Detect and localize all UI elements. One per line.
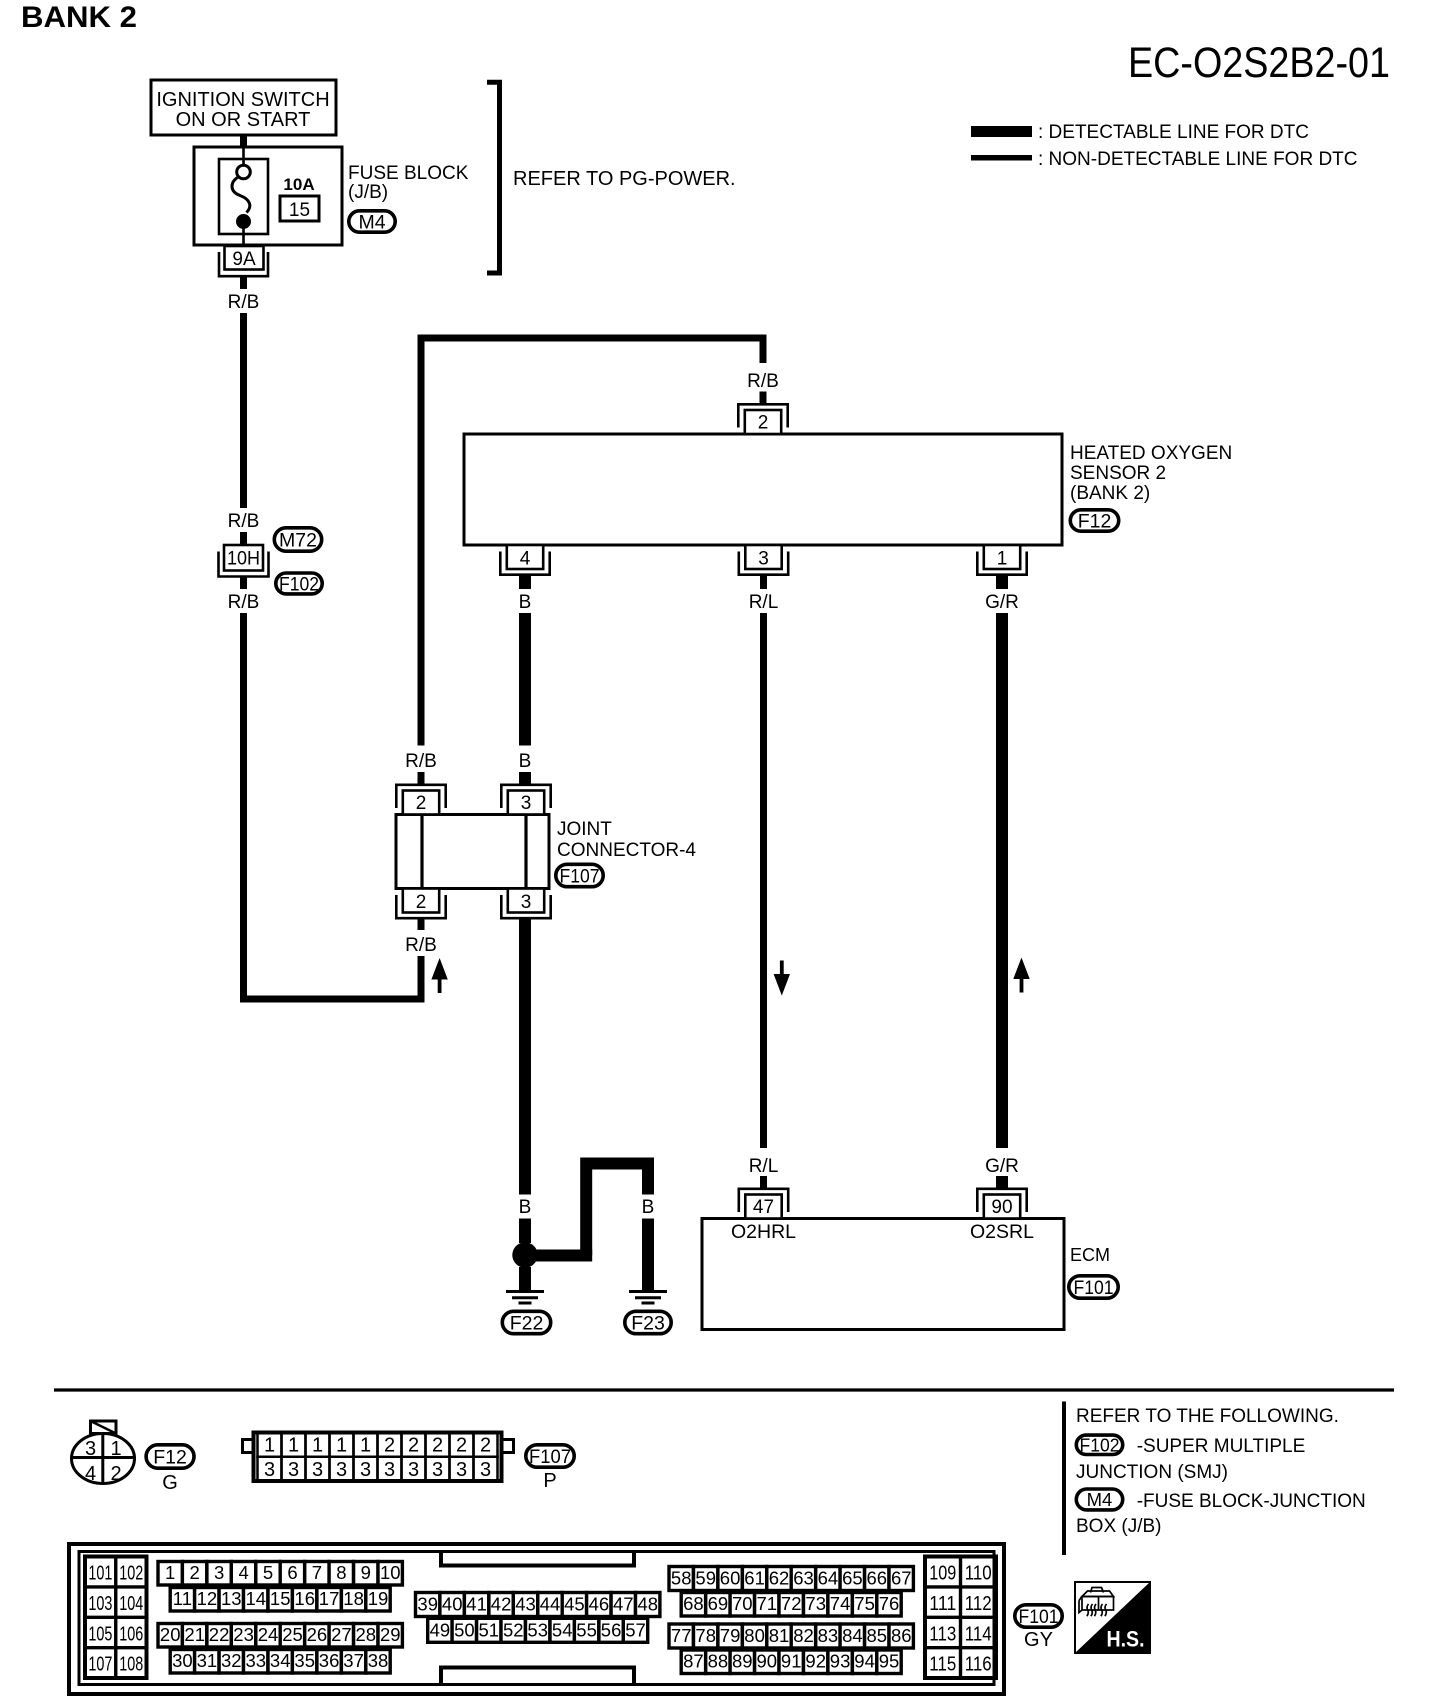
connector face F107 [254, 1433, 502, 1482]
sensor pin 2 [745, 410, 781, 434]
ECM pin 47 [745, 1195, 781, 1219]
ignition switch box [151, 80, 336, 135]
svg-text:G/R: G/R [985, 592, 1019, 613]
svg-text:65: 65 [842, 1568, 863, 1589]
svg-text:31: 31 [197, 1650, 218, 1671]
svg-text:F107: F107 [560, 866, 600, 887]
svg-text:38: 38 [368, 1650, 389, 1671]
wire stub above sensor pin 2 [760, 392, 767, 405]
svg-text:R/B: R/B [747, 371, 779, 392]
wire B down to F23 ground [642, 1219, 654, 1291]
svg-text:57: 57 [625, 1619, 646, 1640]
svg-text:62: 62 [769, 1568, 790, 1589]
svg-text:54: 54 [552, 1619, 573, 1640]
wire R/L sensor to ECM pin 47 [760, 613, 767, 1148]
svg-text:35: 35 [294, 1650, 315, 1671]
wire stub above joint pin 2 [418, 772, 425, 785]
svg-text:M4: M4 [1087, 1489, 1113, 1510]
svg-text:1: 1 [288, 1435, 299, 1457]
svg-text:26: 26 [307, 1624, 328, 1645]
svg-text:36: 36 [319, 1650, 340, 1671]
svg-text:2: 2 [408, 1435, 419, 1457]
svg-text:JUNCTION (SMJ): JUNCTION (SMJ) [1076, 1462, 1228, 1483]
svg-text:42: 42 [491, 1594, 512, 1615]
svg-text:113: 113 [929, 1623, 956, 1645]
svg-text:112: 112 [965, 1593, 992, 1615]
svg-text:: NON-DETECTABLE LINE FOR DTC: : NON-DETECTABLE LINE FOR DTC [1038, 149, 1358, 170]
svg-text:CONNECTOR-4: CONNECTOR-4 [557, 840, 696, 861]
H.S. logo [1075, 1582, 1150, 1653]
svg-text:F102: F102 [279, 574, 319, 595]
connector F12 oval (bottom) [146, 1445, 194, 1468]
svg-text:46: 46 [589, 1594, 610, 1615]
svg-text:3: 3 [521, 793, 532, 814]
svg-text:41: 41 [466, 1594, 487, 1615]
svg-text:12: 12 [197, 1588, 218, 1609]
svg-text:11: 11 [173, 1588, 192, 1609]
wire stub above joint pin 3 [519, 772, 531, 785]
svg-text:110: 110 [965, 1563, 992, 1585]
svg-text:43: 43 [515, 1594, 536, 1615]
svg-text:R/L: R/L [749, 1156, 779, 1177]
svg-text:JOINT: JOINT [557, 819, 612, 840]
svg-text:3: 3 [360, 1459, 371, 1481]
svg-text:3: 3 [480, 1459, 491, 1481]
svg-text:67: 67 [891, 1568, 912, 1589]
svg-text:55: 55 [576, 1619, 597, 1640]
ECM pins 1-10 [158, 1562, 182, 1586]
svg-text:89: 89 [732, 1651, 753, 1672]
svg-text:17: 17 [319, 1588, 340, 1609]
svg-text:4: 4 [238, 1562, 248, 1583]
svg-text:G/R: G/R [985, 1156, 1019, 1177]
connector 10H (SMJ) [224, 545, 263, 571]
svg-text:3: 3 [456, 1459, 467, 1481]
svg-text:1: 1 [312, 1435, 323, 1457]
ECM box F101 [702, 1219, 1064, 1330]
svg-text:79: 79 [720, 1625, 741, 1646]
svg-text:B: B [519, 592, 532, 613]
svg-text:103: 103 [88, 1593, 112, 1615]
svg-text:50: 50 [454, 1619, 475, 1640]
svg-text:33: 33 [246, 1650, 267, 1671]
svg-text:IGNITION SWITCH: IGNITION SWITCH [156, 89, 329, 111]
svg-text:70: 70 [732, 1593, 753, 1614]
svg-text:ECM: ECM [1070, 1245, 1110, 1265]
connector F102 oval (note) [1076, 1435, 1122, 1454]
svg-text:F12: F12 [153, 1447, 187, 1469]
svg-text:2: 2 [190, 1562, 200, 1583]
connector face F101 (ECM 116 pin) [69, 1544, 1004, 1694]
svg-text:1: 1 [997, 549, 1008, 570]
svg-text:88: 88 [708, 1651, 729, 1672]
svg-text:72: 72 [781, 1593, 802, 1614]
svg-text:20: 20 [160, 1624, 181, 1645]
svg-text:69: 69 [708, 1593, 729, 1614]
wire stub to F22 ground [519, 1267, 531, 1290]
wire stub below joint pin 2 [418, 918, 425, 930]
svg-text:F107: F107 [529, 1447, 571, 1468]
ECM pins 39-48 [416, 1593, 440, 1617]
svg-text:F101: F101 [1019, 1607, 1059, 1628]
svg-text:71: 71 [757, 1593, 778, 1614]
ECM pins 101-108 [85, 1557, 147, 1679]
joint pin 3 bottom [508, 889, 544, 913]
connector F101 oval (bottom) [1015, 1605, 1062, 1627]
connector M72 oval [274, 528, 321, 551]
wire B branch to F23 ground [525, 1250, 592, 1262]
svg-text:REFER TO PG-POWER.: REFER TO PG-POWER. [513, 168, 736, 190]
wire R/B down-left and corner to joint connector [240, 613, 247, 1003]
svg-text:F12: F12 [1078, 511, 1112, 533]
svg-text:68: 68 [683, 1593, 704, 1614]
svg-text:3: 3 [288, 1459, 299, 1481]
svg-text:3: 3 [432, 1459, 443, 1481]
svg-text:O2SRL: O2SRL [970, 1221, 1034, 1243]
fuse inner box [219, 159, 268, 234]
svg-text:114: 114 [965, 1623, 992, 1645]
wire R/B horizontal top run [418, 335, 767, 342]
legend thick detectable line sample [971, 126, 1032, 137]
svg-text:102: 102 [119, 1563, 143, 1585]
svg-text:P: P [543, 1470, 556, 1492]
svg-text:93: 93 [830, 1651, 851, 1672]
svg-text:49: 49 [430, 1619, 451, 1640]
svg-text:30: 30 [172, 1650, 193, 1671]
wire stub below 9A [240, 278, 247, 290]
svg-text:59: 59 [695, 1568, 716, 1589]
fuse block box M4 [194, 147, 342, 245]
svg-text:74: 74 [830, 1593, 851, 1614]
separator line [54, 1388, 1394, 1391]
svg-text:29: 29 [380, 1624, 401, 1645]
svg-text:53: 53 [527, 1619, 548, 1640]
svg-text:24: 24 [258, 1624, 279, 1645]
svg-text:5: 5 [263, 1562, 273, 1583]
svg-text:3: 3 [312, 1459, 323, 1481]
svg-text:23: 23 [233, 1624, 254, 1645]
svg-text:FUSE BLOCK: FUSE BLOCK [348, 163, 469, 184]
svg-text:10H: 10H [227, 549, 260, 570]
svg-text:19: 19 [368, 1588, 389, 1609]
svg-text:3: 3 [214, 1562, 224, 1583]
svg-text:73: 73 [805, 1593, 826, 1614]
svg-text:M4: M4 [358, 212, 385, 234]
svg-text:37: 37 [343, 1650, 364, 1671]
svg-text:39: 39 [417, 1594, 438, 1615]
svg-text:B: B [642, 1197, 655, 1218]
svg-text:1: 1 [165, 1562, 175, 1583]
svg-text:104: 104 [119, 1593, 143, 1615]
svg-text:25: 25 [282, 1624, 303, 1645]
ECM pins 30-38 [170, 1650, 194, 1674]
svg-text:(BANK 2): (BANK 2) [1070, 483, 1150, 504]
svg-text:R/B: R/B [405, 935, 437, 956]
svg-text:21: 21 [184, 1624, 205, 1645]
wire stub above 10H [240, 532, 247, 545]
svg-text:106: 106 [119, 1623, 143, 1645]
svg-text:-FUSE BLOCK-JUNCTION: -FUSE BLOCK-JUNCTION [1137, 1491, 1366, 1512]
svg-text:101: 101 [88, 1563, 112, 1585]
joint pin 3 top [508, 791, 544, 815]
svg-text:REFER TO THE FOLLOWING.: REFER TO THE FOLLOWING. [1076, 1406, 1339, 1427]
svg-text:15: 15 [270, 1588, 291, 1609]
svg-text:4: 4 [520, 549, 531, 570]
svg-text:9: 9 [361, 1562, 371, 1583]
ground F22 [506, 1290, 544, 1293]
svg-text:18: 18 [343, 1588, 364, 1609]
wire ignition to fuse block [240, 135, 247, 147]
joint pin 2 top [403, 791, 439, 815]
sensor pin 1 [984, 545, 1020, 569]
svg-text:47: 47 [753, 1197, 774, 1218]
svg-text:4: 4 [85, 1463, 96, 1485]
svg-text:87: 87 [683, 1651, 704, 1672]
svg-text:3: 3 [85, 1438, 96, 1460]
connector F101 oval [1069, 1276, 1118, 1298]
svg-text:7: 7 [312, 1562, 322, 1583]
svg-text:77: 77 [671, 1625, 692, 1646]
svg-text:F101: F101 [1074, 1278, 1114, 1299]
svg-text:109: 109 [929, 1563, 956, 1585]
svg-text:32: 32 [221, 1650, 242, 1671]
wire R/B from 9A to 10H [240, 313, 247, 508]
svg-text:HEATED OXYGEN: HEATED OXYGEN [1070, 443, 1232, 464]
svg-text:2: 2 [416, 793, 427, 814]
svg-text:-SUPER MULTIPLE: -SUPER MULTIPLE [1137, 1436, 1306, 1457]
fuse number 15 box [280, 196, 319, 221]
sensor pin 3 [745, 545, 781, 569]
fuse 10A element [242, 147, 245, 166]
svg-text:48: 48 [638, 1594, 659, 1615]
svg-text:2: 2 [416, 892, 427, 913]
svg-text:2: 2 [758, 413, 769, 434]
svg-text:H.S.: H.S. [1107, 1627, 1145, 1652]
connector M4 oval (note) [1076, 1489, 1122, 1510]
svg-text:84: 84 [842, 1625, 863, 1646]
svg-text:83: 83 [818, 1625, 839, 1646]
svg-text:116: 116 [965, 1654, 992, 1676]
ECM pins 11-19 [170, 1588, 194, 1612]
ECM pins 20-29 [158, 1624, 182, 1648]
svg-text:94: 94 [854, 1651, 875, 1672]
svg-text:47: 47 [613, 1594, 634, 1615]
svg-text:2: 2 [110, 1463, 121, 1485]
connector 9A [225, 246, 264, 270]
svg-text:M72: M72 [279, 530, 317, 552]
wire B to junction dot [519, 1219, 531, 1244]
svg-text:: DETECTABLE LINE FOR DTC: : DETECTABLE LINE FOR DTC [1038, 122, 1309, 143]
svg-text:111: 111 [929, 1593, 956, 1615]
svg-text:2: 2 [384, 1435, 395, 1457]
svg-text:1: 1 [264, 1435, 275, 1457]
wire B sensor to joint connector [519, 613, 531, 746]
svg-text:76: 76 [879, 1593, 900, 1614]
svg-text:EC-O2S2B2-01: EC-O2S2B2-01 [1128, 39, 1390, 87]
connector F107 oval [556, 864, 603, 886]
wire G/R sensor to ECM pin 90 [996, 613, 1008, 1148]
svg-text:63: 63 [793, 1568, 814, 1589]
legend thin non-detectable line sample [971, 155, 1032, 161]
svg-text:80: 80 [744, 1625, 765, 1646]
svg-text:45: 45 [564, 1594, 585, 1615]
svg-text:28: 28 [356, 1624, 377, 1645]
svg-text:8: 8 [336, 1562, 346, 1583]
svg-text:9A: 9A [232, 249, 256, 270]
svg-text:64: 64 [818, 1568, 839, 1589]
ECM pins 49-57 [428, 1618, 452, 1642]
divider vertical line [1062, 1402, 1066, 1556]
svg-text:51: 51 [479, 1619, 500, 1640]
sensor pin 4 [507, 545, 543, 569]
svg-text:66: 66 [867, 1568, 888, 1589]
keyway notch top [441, 1551, 634, 1566]
svg-text:2: 2 [480, 1435, 491, 1457]
svg-text:GY: GY [1024, 1629, 1053, 1651]
svg-text:2: 2 [432, 1435, 443, 1457]
wire stub below 10H [240, 577, 247, 590]
svg-text:F22: F22 [510, 1313, 544, 1335]
wire stub below sensor pin 4 [519, 574, 531, 589]
junction dot [512, 1242, 537, 1267]
bracket refer to PG-POWER [487, 82, 500, 273]
svg-text:52: 52 [503, 1619, 524, 1640]
svg-text:3: 3 [758, 549, 769, 570]
svg-text:10: 10 [380, 1562, 401, 1583]
svg-text:61: 61 [744, 1568, 765, 1589]
wire stub below sensor pin 3 [760, 574, 767, 589]
svg-text:13: 13 [221, 1588, 242, 1609]
svg-text:SENSOR 2: SENSOR 2 [1070, 463, 1166, 484]
svg-text:60: 60 [720, 1568, 741, 1589]
svg-text:R/B: R/B [405, 751, 437, 772]
svg-text:107: 107 [88, 1654, 112, 1676]
svg-text:16: 16 [294, 1588, 315, 1609]
svg-text:2: 2 [456, 1435, 467, 1457]
connector M4 oval [349, 211, 395, 232]
svg-text:90: 90 [991, 1197, 1012, 1218]
connector F12 oval [1070, 510, 1118, 531]
wire R/B drop to sensor pin 2 [760, 338, 767, 363]
svg-text:B: B [580, 1197, 593, 1218]
svg-text:B: B [519, 1197, 532, 1218]
svg-text:92: 92 [805, 1651, 826, 1672]
keyway notch bottom [441, 1668, 634, 1686]
wire B joint to ground [519, 930, 531, 1195]
svg-text:F23: F23 [631, 1313, 665, 1335]
joint pin 2 bottom [403, 889, 439, 913]
svg-text:90: 90 [757, 1651, 778, 1672]
ECM pins 109-116 [925, 1557, 996, 1679]
svg-text:58: 58 [671, 1568, 692, 1589]
svg-text:BOX (J/B): BOX (J/B) [1076, 1516, 1162, 1537]
svg-text:3: 3 [384, 1459, 395, 1481]
svg-text:G: G [162, 1472, 178, 1494]
svg-text:R/B: R/B [228, 292, 260, 313]
svg-text:56: 56 [601, 1619, 622, 1640]
connector F107 oval (bottom) [526, 1445, 574, 1467]
wire stub below sensor pin 1 [996, 574, 1008, 589]
wire stub above ECM pin 90 [996, 1176, 1008, 1189]
svg-text:1: 1 [110, 1438, 121, 1460]
svg-text:3: 3 [264, 1459, 275, 1481]
svg-text:O2HRL: O2HRL [731, 1221, 796, 1243]
svg-text:86: 86 [891, 1625, 912, 1646]
svg-text:95: 95 [879, 1651, 900, 1672]
connector F102 oval [276, 573, 322, 594]
svg-text:3: 3 [521, 892, 532, 913]
svg-text:BANK 2: BANK 2 [21, 1, 137, 34]
svg-text:85: 85 [867, 1625, 888, 1646]
ECM pin 90 [984, 1195, 1020, 1219]
svg-text:27: 27 [331, 1624, 352, 1645]
svg-text:R/B: R/B [228, 592, 260, 613]
wire R/B rising to joint connector pin 2 [418, 956, 425, 999]
joint connector-4 box F107 [396, 815, 549, 889]
ECM pins 77-86 [669, 1624, 693, 1648]
ECM pins 58-67 [669, 1567, 693, 1591]
svg-text:ON OR START: ON OR START [176, 109, 311, 131]
svg-text:78: 78 [695, 1625, 716, 1646]
svg-text:R/B: R/B [228, 511, 260, 532]
svg-text:F102: F102 [1080, 1435, 1120, 1456]
svg-text:15: 15 [289, 200, 310, 221]
svg-text:1: 1 [360, 1435, 371, 1457]
ECM pins 87-95 [681, 1650, 705, 1674]
joint connector inner cell lines [420, 815, 423, 889]
svg-text:91: 91 [781, 1651, 802, 1672]
direction arrow down [774, 974, 790, 996]
ground F23 [629, 1290, 667, 1293]
svg-text:22: 22 [209, 1624, 230, 1645]
direction arrow up [1013, 958, 1029, 980]
connector face F12 (round) [72, 1434, 135, 1484]
wire stub below joint pin 3 [519, 918, 531, 930]
svg-text:115: 115 [929, 1654, 956, 1676]
svg-text:6: 6 [287, 1562, 297, 1583]
svg-text:10A: 10A [283, 175, 314, 194]
svg-text:14: 14 [246, 1588, 267, 1609]
svg-text:34: 34 [270, 1650, 291, 1671]
svg-text:(J/B): (J/B) [348, 182, 388, 203]
svg-text:44: 44 [540, 1594, 561, 1615]
svg-text:3: 3 [336, 1459, 347, 1481]
svg-text:B: B [519, 751, 532, 772]
svg-text:40: 40 [442, 1594, 463, 1615]
svg-text:108: 108 [119, 1654, 143, 1676]
svg-text:R/L: R/L [749, 592, 779, 613]
svg-text:82: 82 [793, 1625, 814, 1646]
svg-text:105: 105 [88, 1623, 112, 1645]
svg-text:81: 81 [769, 1625, 790, 1646]
ECM pins 68-76 [681, 1593, 705, 1617]
svg-text:3: 3 [408, 1459, 419, 1481]
heated oxygen sensor 2 box F12 [464, 434, 1062, 545]
wire stub above ECM pin 47 [760, 1176, 767, 1189]
direction arrow up [431, 958, 447, 980]
svg-text:1: 1 [336, 1435, 347, 1457]
svg-text:75: 75 [854, 1593, 875, 1614]
